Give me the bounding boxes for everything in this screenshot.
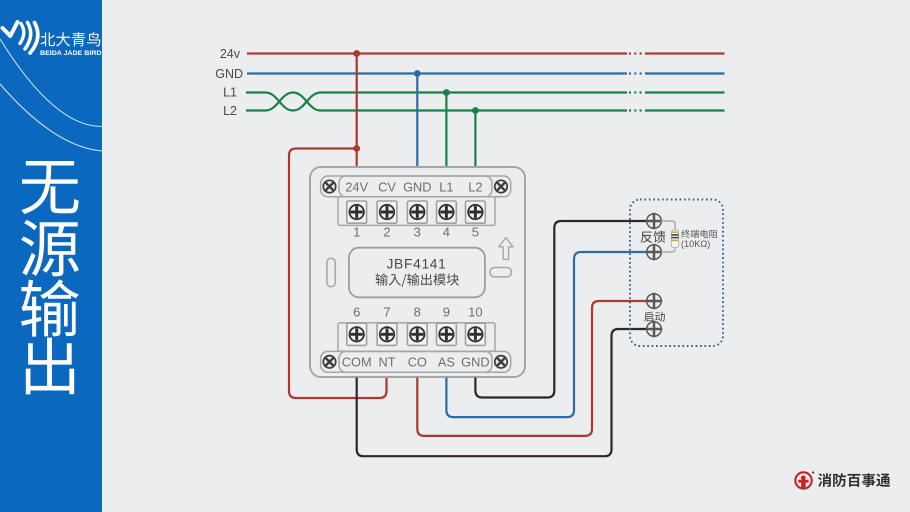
svg-text:L2: L2 [468, 179, 482, 194]
footer logo text 消防百事通 [818, 473, 890, 487]
feedback terminal + [647, 214, 662, 229]
svg-text:JBF4141: JBF4141 [386, 256, 446, 271]
svg-text:CO: CO [408, 354, 427, 369]
module bottom label bar [321, 351, 511, 372]
module center label box [349, 248, 485, 298]
svg-text:10: 10 [468, 304, 482, 319]
svg-text:AS: AS [438, 354, 455, 369]
label 启动 [644, 312, 665, 322]
svg-text:8: 8 [414, 304, 421, 319]
module right pill [490, 268, 512, 277]
controlled device box (dashed) [630, 200, 723, 347]
svg-text:2: 2 [383, 225, 390, 240]
label 输入/输出模块 [376, 273, 459, 286]
terminal screw 2 [377, 201, 397, 223]
terminal screw 10 [466, 323, 486, 345]
top terminal screw block [338, 197, 495, 226]
junction L2 bus [472, 107, 479, 114]
start terminal - [647, 322, 662, 337]
junction GND bus [414, 70, 421, 77]
bus L1 line (twisted pair) [246, 93, 725, 111]
feedback terminal - [647, 245, 662, 260]
wire CO(8) to start terminal + [417, 301, 647, 436]
svg-text:GND: GND [403, 179, 431, 194]
terminal screw 3 [407, 201, 427, 223]
junction 24V branch [353, 145, 360, 152]
wire L2 bus to terminal 5 [474, 111, 476, 167]
svg-text:24V: 24V [345, 179, 368, 194]
wire GND(10) to feedback terminal + [475, 221, 647, 398]
mounting screw top-left [323, 180, 335, 192]
svg-text:L1: L1 [223, 85, 237, 99]
svg-text:6: 6 [353, 304, 360, 319]
mounting screw top-right [495, 180, 507, 192]
wire AS(9) to feedback terminal - [446, 252, 647, 417]
wire GND bus to terminal 3 [416, 74, 418, 167]
svg-text:1: 1 [353, 225, 360, 240]
terminal screw 1 [347, 201, 367, 223]
wire L1 bus to terminal 4 [445, 93, 447, 167]
terminal screw 8 [407, 323, 427, 345]
wire COM(6) to start terminal - [357, 329, 647, 456]
svg-text:BEIDA JADE BIRD: BEIDA JADE BIRD [40, 50, 102, 57]
svg-text:3: 3 [414, 225, 421, 240]
svg-text:L1: L1 [439, 179, 453, 194]
svg-text:4: 4 [443, 225, 450, 240]
resistor R 10K body [671, 230, 678, 248]
module direction arrow [499, 238, 513, 260]
sidebar decorative arcs [0, 39, 102, 151]
mounting screw bottom-left [323, 356, 335, 368]
svg-text:GND: GND [215, 67, 243, 81]
terminal screw 6 [347, 323, 367, 345]
svg-text:24v: 24v [220, 47, 241, 61]
svg-text:(10KΩ): (10KΩ) [681, 239, 710, 249]
start terminal + [647, 294, 662, 309]
module top label bar [321, 176, 511, 197]
module JBF4141 body [310, 167, 525, 377]
svg-text:5: 5 [472, 225, 479, 240]
module left pill [327, 258, 335, 287]
svg-text:9: 9 [443, 304, 450, 319]
junction L1 bus [443, 89, 450, 96]
resistor R terminal leads [661, 221, 675, 252]
svg-text:COM: COM [342, 354, 372, 369]
logo bird icon [3, 22, 38, 53]
terminal screw 7 [377, 323, 397, 345]
junction 24V bus [353, 50, 360, 57]
sidebar title 无源输出 [21, 161, 78, 214]
svg-text:GND: GND [461, 354, 489, 369]
mounting screw bottom-right [495, 356, 507, 368]
terminal screw 5 [466, 201, 486, 223]
bottom terminal screw block [338, 323, 495, 352]
logo text 北大青鸟 [41, 32, 101, 46]
bus GND line [247, 72, 725, 74]
wire 24V branch to terminal 7 NT [289, 149, 387, 399]
svg-text:NT: NT [378, 354, 395, 369]
sidebar panel [0, 0, 102, 512]
label 反馈 [641, 231, 666, 243]
svg-text:CV: CV [378, 179, 396, 194]
value label 终端电阻 (10KΩ) [681, 230, 717, 238]
terminal screw 9 [437, 323, 457, 345]
wire 24V bus to terminal 1 [356, 54, 358, 167]
svg-text:L2: L2 [223, 104, 237, 118]
terminal screw 4 [437, 201, 457, 223]
svg-text:7: 7 [383, 304, 390, 319]
bus 24V line [247, 52, 725, 54]
bus L2 line (twisted pair) [246, 93, 725, 111]
footer logo ring [795, 472, 814, 489]
